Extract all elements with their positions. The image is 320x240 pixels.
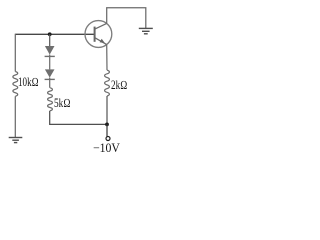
transistor Q1 circle xyxy=(85,21,112,48)
transistor Q1 collector diagonal xyxy=(95,23,107,29)
resistor R 10k squiggle xyxy=(13,72,18,97)
wire: top rail from left corner to transistor base xyxy=(15,33,94,35)
terminal: open circle -10V xyxy=(106,137,110,141)
wire: junction down to -10V terminal xyxy=(106,124,108,136)
label 5kOhm xyxy=(54,100,71,107)
wire: between diodes xyxy=(49,55,51,70)
resistor R 2k squiggle xyxy=(105,70,110,96)
wire: 10k bottom lead down to ground xyxy=(14,96,16,137)
transistor Q1 base bar xyxy=(94,27,96,42)
wire: 2k to bottom node xyxy=(106,96,108,124)
wire: middle branch from junction to diode D1 xyxy=(49,34,51,46)
ground (left) xyxy=(9,138,23,143)
transistor Q1 emitter diagonal with arrow xyxy=(95,38,107,45)
wire: 5k bottom lead and bottom rail to -10V node xyxy=(50,111,107,125)
label 10kOhm xyxy=(18,79,39,86)
ground (top right) xyxy=(139,28,153,33)
label 2kOhm xyxy=(111,82,127,89)
resistor R 5k squiggle xyxy=(48,88,53,111)
node: bottom junction dot xyxy=(105,123,109,127)
diode D1 xyxy=(45,46,55,56)
wire: emitter down to 2k resistor xyxy=(106,45,108,70)
node: junction dot on top rail xyxy=(48,32,52,36)
wire: collector up and over to ground (right) xyxy=(107,8,146,28)
wire: left branch vertical (top rail down to 10k resistor) xyxy=(14,34,16,72)
label -10V xyxy=(93,145,120,152)
wire: diode D2 to 5k resistor xyxy=(49,78,51,88)
diode D2 xyxy=(45,69,55,79)
